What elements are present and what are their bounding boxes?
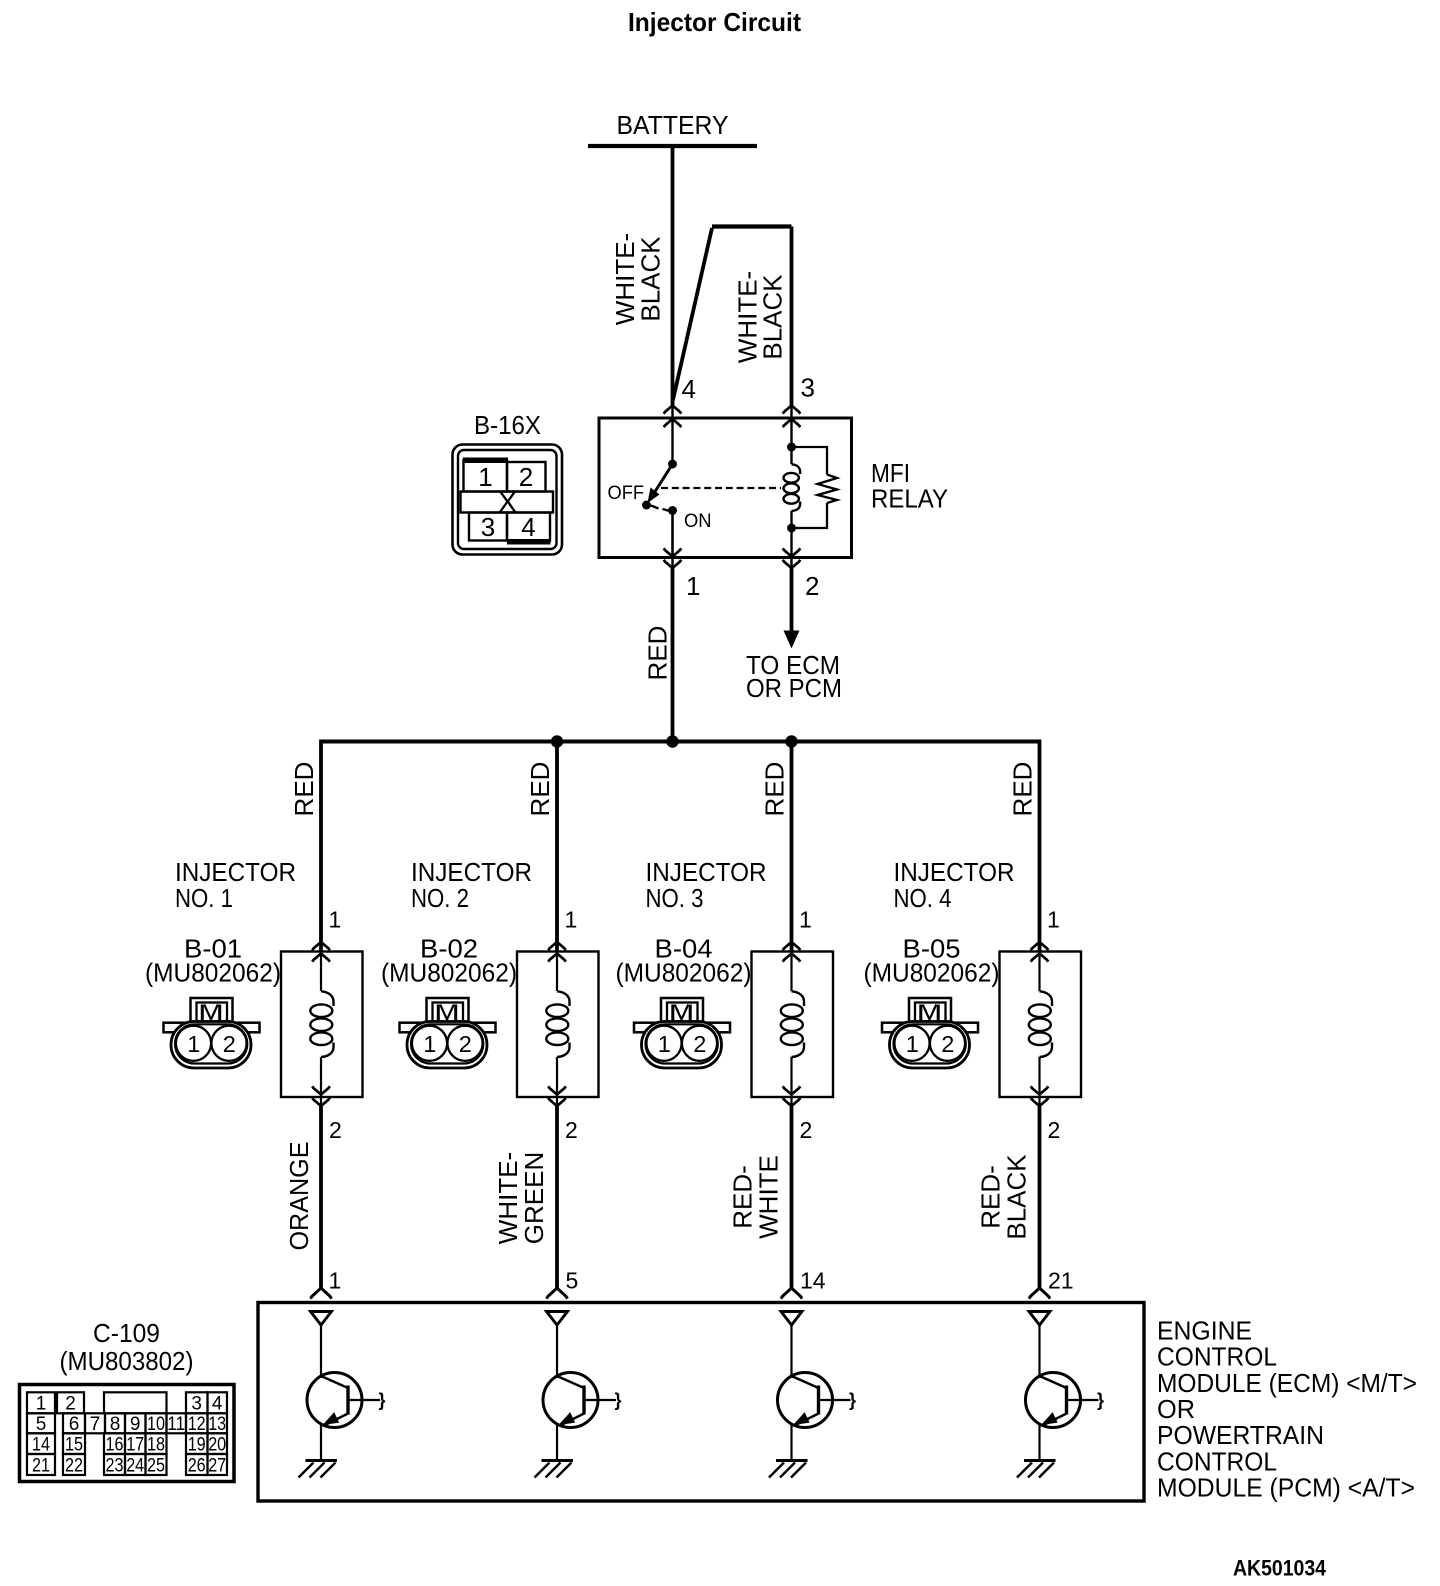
svg-text:14: 14 (800, 1268, 826, 1294)
C-109 pin 4 cell (208, 1392, 228, 1414)
ECM pin 5 terminal chevrons (546, 1288, 567, 1299)
C-109 pin 18 cell (146, 1433, 167, 1455)
svg-text:5: 5 (566, 1268, 579, 1294)
injector no.1 label (175, 857, 296, 913)
C-109 pin 20 cell (208, 1433, 228, 1455)
svg-text:(MU802062): (MU802062) (616, 958, 752, 988)
svg-text:2: 2 (805, 571, 819, 601)
svg-text:3: 3 (481, 512, 495, 542)
svg-text:NO. 1: NO. 1 (175, 883, 233, 913)
svg-text:12: 12 (188, 1414, 206, 1435)
C-109 pin 6 cell (63, 1413, 85, 1435)
wire bus to injector 4 (RED) (1038, 740, 1042, 952)
C-109 pin 17 cell (125, 1433, 146, 1455)
injector no.3 label (646, 857, 767, 913)
wire injector 3 to ECM pin 14 (RED-WHITE) (790, 1097, 792, 1106)
svg-text:B-16X: B-16X (474, 410, 541, 440)
injector 3 pin 1 chevrons (783, 942, 801, 962)
svg-text:ORANGE: ORANGE (284, 1142, 314, 1251)
ECM pin 1 terminal chevrons (310, 1288, 331, 1299)
injector I2 coil (546, 952, 569, 1098)
svg-text:RED: RED (525, 762, 555, 817)
wire injector 2 to ECM pin 5 (WHITE-GREEN) (556, 1097, 558, 1106)
relay dashed actuation line (661, 487, 781, 489)
injector 3 pin 2 chevrons (783, 1086, 801, 1106)
C-109 pin 9 cell (125, 1413, 146, 1435)
svg-text:21: 21 (32, 1456, 50, 1477)
ECM pin 21 terminal chevrons (1029, 1288, 1050, 1299)
svg-text:2: 2 (519, 462, 533, 492)
svg-text:1: 1 (478, 462, 492, 492)
svg-text:20: 20 (208, 1435, 226, 1456)
C-109 pin 7 cell (85, 1413, 105, 1435)
injector 2 pin 2 chevrons (548, 1086, 566, 1106)
svg-text:14: 14 (32, 1435, 50, 1456)
svg-text:23: 23 (106, 1456, 124, 1477)
bus junction dot 3 (785, 735, 797, 747)
wire branch horizontal to pin 3 (712, 224, 792, 228)
relay coil wire (790, 418, 792, 558)
MFI relay box (599, 418, 852, 558)
connector B-02 icon (400, 998, 496, 1068)
C-109 pin 12 cell (186, 1413, 208, 1435)
relay switch (642, 418, 677, 558)
wire label WHITE-BLACK left (610, 233, 666, 325)
svg-text:RED: RED (760, 762, 790, 817)
ECM box (258, 1303, 1144, 1502)
wire injector 1 to ECM pin 1 (ORANGE) (320, 1097, 322, 1106)
svg-text:(MU803802): (MU803802) (60, 1346, 194, 1376)
svg-text:1: 1 (329, 1268, 342, 1294)
C-109 pin 13 cell (208, 1413, 228, 1435)
svg-text:5: 5 (36, 1414, 47, 1435)
relay pin 2 terminal chevrons (783, 548, 801, 568)
svg-text:16: 16 (106, 1435, 124, 1456)
transistor Q4 (1026, 1373, 1105, 1461)
bus junction dot 1 (551, 735, 563, 747)
injector I1 coil (310, 952, 333, 1098)
svg-text:(MU802062): (MU802062) (145, 958, 281, 988)
svg-text:OR PCM: OR PCM (746, 673, 842, 703)
connector B-05 icon (882, 998, 978, 1068)
connector B-16X (453, 445, 563, 555)
svg-text:4: 4 (521, 512, 535, 542)
svg-text:25: 25 (147, 1456, 165, 1477)
connector B-04 icon (634, 998, 730, 1068)
svg-text:NO. 4: NO. 4 (894, 883, 952, 913)
C-109 pin 3 cell (186, 1392, 208, 1414)
C-109 blank cell (104, 1392, 167, 1413)
injector no.2 label (411, 857, 532, 913)
connector B-01 icon (164, 998, 260, 1068)
C-109 pin 24 cell (125, 1454, 146, 1477)
svg-text:RED: RED (643, 626, 673, 681)
B-16X pin 3 cell (469, 512, 507, 542)
C-109 pin 5 cell (27, 1413, 55, 1435)
C-109 pin 26 cell (186, 1454, 208, 1477)
svg-text:18: 18 (147, 1435, 165, 1456)
svg-text:17: 17 (126, 1435, 144, 1456)
injector I3 box (752, 952, 834, 1098)
injector I4 coil (1029, 952, 1052, 1098)
injector 1 pin 1 chevrons (312, 942, 330, 962)
C-109 pin 19 cell (186, 1433, 208, 1455)
wire triangle to transistor Q2 (556, 1325, 558, 1379)
arrow to ECM (784, 631, 800, 649)
connector C-109 (20, 1385, 235, 1482)
svg-text:NO. 3: NO. 3 (646, 883, 704, 913)
C-109 pin 23 cell (104, 1454, 125, 1477)
connector C-109 label (60, 1318, 194, 1376)
svg-text:3: 3 (801, 373, 815, 403)
svg-text:2: 2 (329, 1117, 342, 1143)
svg-text:26: 26 (188, 1456, 206, 1477)
wire label WHITE-GREEN (493, 1152, 549, 1244)
relay resistor branch (792, 447, 828, 528)
svg-text:22: 22 (65, 1456, 83, 1477)
svg-text:OFF: OFF (608, 483, 645, 504)
ECM input triangle 1 (311, 1312, 332, 1326)
transistor Q3 (778, 1373, 857, 1461)
injector 1 pin 2 chevrons (312, 1086, 330, 1106)
wire diagonal tap (673, 228, 713, 402)
ECM input triangle 2 (547, 1312, 568, 1326)
transistor Q2 (543, 1373, 622, 1461)
relay coil junction dot top (787, 443, 796, 452)
svg-text:1: 1 (36, 1394, 47, 1415)
injector I3 coil (781, 952, 804, 1098)
bus wire (321, 740, 1040, 744)
injector I4 box (1000, 952, 1082, 1098)
relay coil (784, 464, 801, 511)
ECM module label (1157, 1316, 1417, 1503)
svg-text:13: 13 (208, 1414, 226, 1435)
C-109 pin 1 cell (27, 1392, 55, 1414)
connector B-02 label (381, 934, 517, 988)
svg-text:2: 2 (565, 1117, 578, 1143)
svg-text:MODULE (ECM) <M/T>: MODULE (ECM) <M/T> (1157, 1368, 1417, 1398)
connector B-05 label (864, 934, 1000, 988)
svg-text:BATTERY: BATTERY (617, 110, 729, 140)
svg-text:BLACK: BLACK (1002, 1154, 1032, 1240)
svg-text:Injector Circuit: Injector Circuit (628, 7, 801, 37)
wire bus to injector 1 (RED) (319, 740, 323, 952)
wire triangle to transistor Q1 (320, 1325, 322, 1379)
svg-text:RED: RED (1008, 762, 1038, 817)
wire triangle to transistor Q4 (1038, 1325, 1040, 1379)
svg-text:WHITE: WHITE (754, 1155, 784, 1239)
injector I1 box (281, 952, 363, 1098)
svg-text:BLACK: BLACK (758, 274, 788, 360)
injector I2 box (517, 952, 599, 1098)
svg-text:6: 6 (69, 1414, 80, 1435)
pin 4 terminal chevrons (664, 406, 682, 428)
ground 1 (299, 1461, 338, 1478)
wire label RED-WHITE (728, 1155, 784, 1239)
C-109 pin 10 cell (146, 1413, 167, 1435)
injector 4 pin 2 chevrons (1031, 1086, 1049, 1106)
wire label RED-BLACK (976, 1154, 1032, 1240)
C-109 pin 16 cell (104, 1433, 125, 1455)
B-16X keyway bar with X (461, 487, 554, 519)
svg-text:2: 2 (800, 1117, 813, 1143)
svg-text:ON: ON (684, 511, 712, 532)
C-109 pin 27 cell (208, 1454, 228, 1477)
MFI relay label (871, 458, 948, 514)
ground 3 (769, 1461, 808, 1478)
svg-text:9: 9 (130, 1414, 141, 1435)
C-109 pin 2 cell (57, 1392, 84, 1414)
ECM input triangle 4 (1029, 1312, 1050, 1326)
relay pin 1 terminal chevrons (664, 548, 682, 568)
svg-text:3: 3 (191, 1394, 202, 1415)
transistor Q1 (307, 1373, 386, 1461)
svg-text:8: 8 (110, 1414, 121, 1435)
C-109 pin 25 cell (146, 1454, 167, 1477)
relay resistor zigzag (818, 475, 838, 504)
svg-text:MODULE (PCM) <A/T>: MODULE (PCM) <A/T> (1157, 1473, 1415, 1503)
svg-text:24: 24 (126, 1456, 144, 1477)
svg-text:27: 27 (208, 1456, 226, 1477)
wire relay pin 1 to bus (RED) (671, 558, 673, 569)
svg-text:NO. 2: NO. 2 (411, 883, 469, 913)
injector 2 pin 1 chevrons (548, 942, 566, 962)
svg-text:1: 1 (329, 907, 342, 933)
svg-text:19: 19 (188, 1435, 206, 1456)
svg-text:BLACK: BLACK (636, 236, 666, 322)
svg-text:7: 7 (90, 1414, 101, 1435)
injector 4 pin 1 chevrons (1031, 942, 1049, 962)
wire to relay pin 3 (WHITE-BLACK) (790, 227, 794, 407)
svg-text:RELAY: RELAY (871, 484, 948, 514)
relay coil junction dot bottom (787, 524, 796, 533)
B-16X pin 1 cell (463, 458, 508, 493)
wire bus to injector 2 (RED) (555, 742, 559, 952)
svg-text:2: 2 (1048, 1117, 1061, 1143)
C-109 pin 11 cell (167, 1413, 187, 1435)
ground 2 (535, 1461, 574, 1478)
ECM pin 14 terminal chevrons (781, 1288, 802, 1299)
svg-text:1: 1 (1047, 907, 1060, 933)
wire battery to relay pin 4 (WHITE-BLACK) (671, 146, 675, 406)
B-16X pin 2 cell (507, 462, 546, 492)
ECM input triangle 3 (781, 1312, 802, 1326)
svg-text:AK501034: AK501034 (1233, 1556, 1327, 1581)
svg-text:RED: RED (289, 762, 319, 817)
svg-text:2: 2 (65, 1394, 76, 1415)
C-109 pin 14 cell (27, 1433, 55, 1455)
injector no.4 label (894, 857, 1015, 913)
C-109 pin 21 cell (27, 1454, 55, 1477)
wire label WHITE-BLACK right (733, 271, 788, 363)
svg-text:11: 11 (167, 1414, 185, 1435)
battery bar (588, 144, 757, 148)
svg-text:GREEN: GREEN (519, 1152, 549, 1244)
svg-text:4: 4 (682, 374, 696, 404)
connector B-01 label (145, 934, 281, 988)
B-16X pin 4 cell (507, 512, 551, 545)
svg-text:21: 21 (1048, 1268, 1074, 1294)
svg-text:1: 1 (565, 907, 578, 933)
svg-text:1: 1 (799, 907, 812, 933)
svg-text:(MU802062): (MU802062) (381, 958, 517, 988)
C-109 pin 8 cell (105, 1413, 125, 1435)
wire relay pin 2 to ECM arrow (790, 558, 792, 569)
wire bus to injector 3 (RED) (790, 742, 794, 952)
label TO ECM OR PCM (746, 650, 842, 703)
connector B-04 label (616, 934, 752, 988)
svg-text:4: 4 (212, 1394, 223, 1415)
svg-text:10: 10 (147, 1414, 165, 1435)
pin 3 terminal chevrons (783, 406, 801, 428)
svg-text:C-109: C-109 (93, 1318, 160, 1348)
C-109 pin 15 cell (63, 1433, 85, 1455)
bus junction dot 2 (666, 735, 678, 747)
svg-text:(MU802062): (MU802062) (864, 958, 1000, 988)
svg-text:15: 15 (65, 1435, 83, 1456)
wire injector 4 to ECM pin 21 (RED-BLACK) (1038, 1097, 1040, 1106)
C-109 pin 22 cell (63, 1454, 85, 1477)
wire triangle to transistor Q3 (790, 1325, 792, 1379)
ground 4 (1017, 1461, 1056, 1478)
svg-text:1: 1 (686, 571, 700, 601)
